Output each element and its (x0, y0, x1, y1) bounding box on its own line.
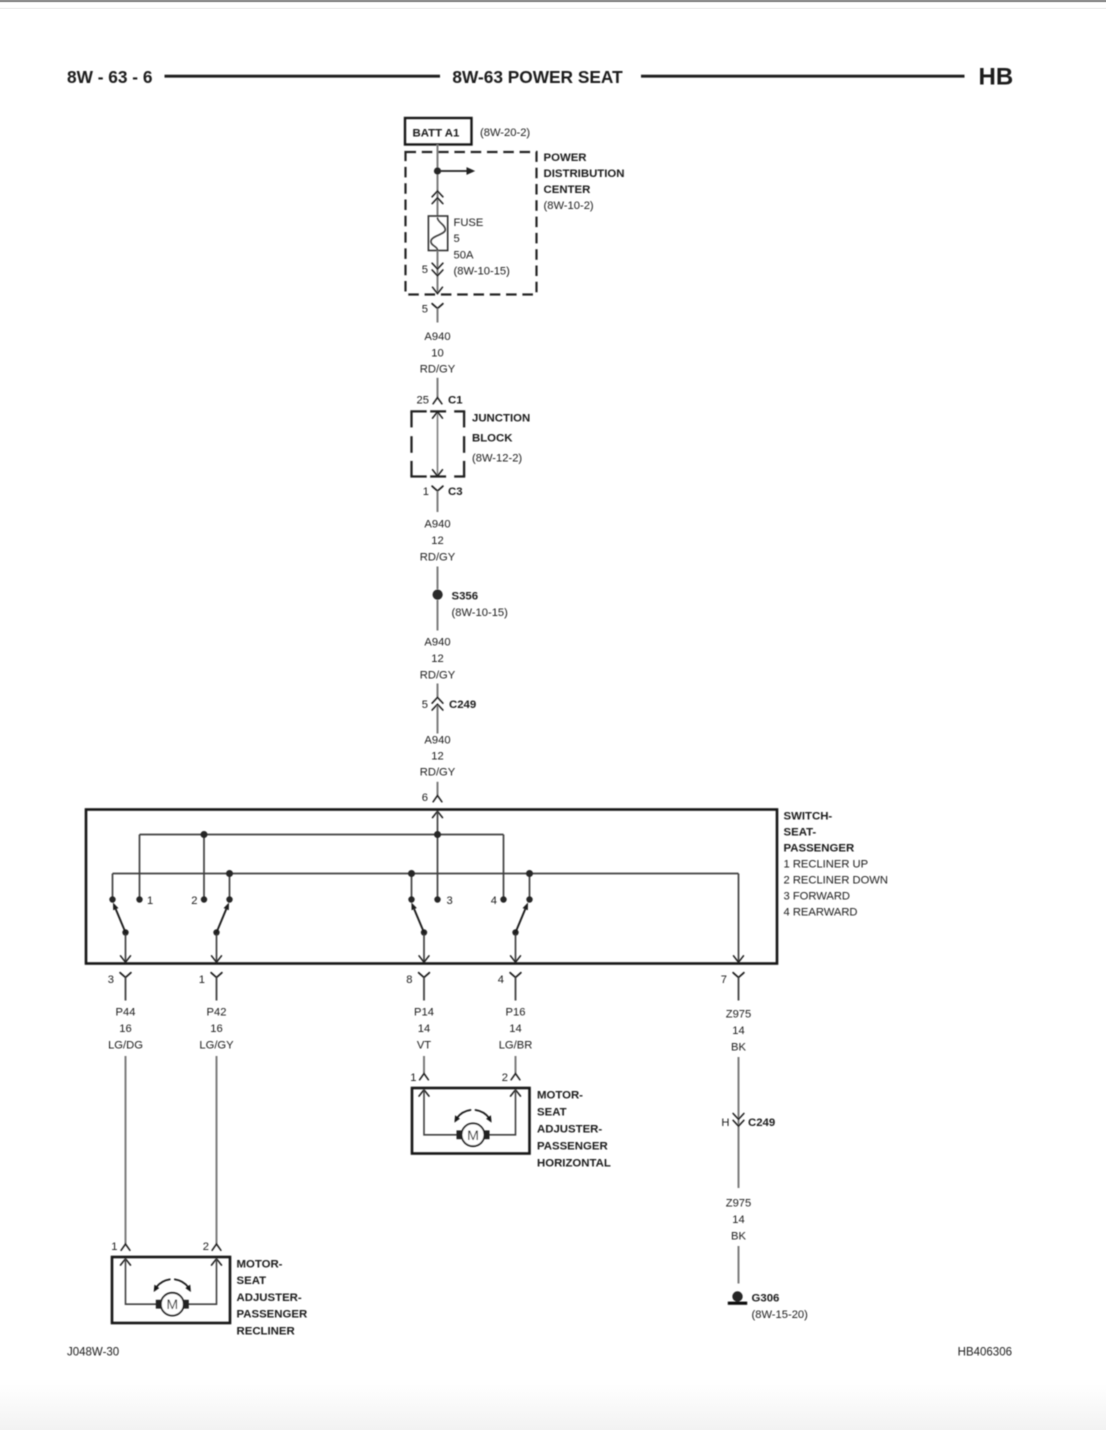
svg-text:A940: A940 (424, 519, 450, 531)
svg-text:FUSE: FUSE (454, 217, 484, 229)
svg-text:RD/GY: RD/GY (420, 767, 456, 779)
svg-text:RD/GY: RD/GY (420, 364, 456, 376)
svg-text:25: 25 (417, 394, 429, 406)
svg-text:2 RECLINER DOWN: 2 RECLINER DOWN (784, 875, 888, 887)
svg-text:14: 14 (732, 1025, 744, 1037)
svg-text:RD/GY: RD/GY (420, 552, 456, 564)
svg-text:16: 16 (119, 1023, 131, 1035)
svg-text:5: 5 (422, 699, 428, 711)
svg-text:H: H (721, 1117, 729, 1129)
svg-text:8: 8 (406, 974, 412, 986)
svg-text:LG/DG: LG/DG (108, 1039, 143, 1051)
svg-text:BK: BK (731, 1041, 746, 1053)
svg-text:MOTOR-: MOTOR- (537, 1090, 583, 1102)
svg-text:JUNCTION: JUNCTION (472, 413, 530, 425)
svg-text:12: 12 (431, 653, 443, 665)
svg-text:6: 6 (422, 792, 428, 804)
svg-text:4 REARWARD: 4 REARWARD (784, 907, 858, 919)
svg-text:12: 12 (431, 751, 443, 763)
svg-text:5: 5 (454, 233, 460, 245)
svg-text:MOTOR-: MOTOR- (237, 1259, 283, 1271)
svg-text:5: 5 (422, 264, 428, 276)
svg-text:LG/BR: LG/BR (499, 1039, 533, 1051)
svg-text:(8W-12-2): (8W-12-2) (472, 453, 522, 465)
svg-text:50A: 50A (454, 249, 474, 261)
svg-text:HB: HB (979, 64, 1014, 91)
svg-text:ADJUSTER-: ADJUSTER- (537, 1124, 602, 1136)
svg-text:P16: P16 (506, 1007, 526, 1019)
svg-text:C3: C3 (448, 486, 463, 498)
svg-text:S356: S356 (452, 590, 479, 602)
svg-text:ADJUSTER-: ADJUSTER- (237, 1292, 302, 1304)
svg-text:1: 1 (199, 974, 205, 986)
svg-text:A940: A940 (424, 735, 450, 747)
svg-text:HORIZONTAL: HORIZONTAL (537, 1158, 611, 1170)
svg-text:16: 16 (210, 1023, 222, 1035)
svg-text:5: 5 (422, 304, 428, 316)
svg-text:8W - 63 - 6: 8W - 63 - 6 (67, 67, 152, 87)
svg-text:BATT A1: BATT A1 (413, 127, 460, 139)
svg-text:2: 2 (502, 1072, 508, 1084)
svg-text:Z975: Z975 (726, 1198, 752, 1210)
svg-text:7: 7 (721, 974, 727, 986)
svg-text:(8W-10-15): (8W-10-15) (454, 266, 511, 278)
svg-text:POWER: POWER (544, 152, 587, 164)
svg-text:VT: VT (417, 1039, 431, 1051)
svg-text:1 RECLINER UP: 1 RECLINER UP (784, 859, 869, 871)
svg-text:(8W-10-2): (8W-10-2) (544, 200, 594, 212)
svg-text:14: 14 (732, 1214, 744, 1226)
svg-text:SWITCH-: SWITCH- (784, 811, 833, 823)
svg-text:PASSENGER: PASSENGER (537, 1141, 608, 1153)
svg-text:CENTER: CENTER (544, 184, 591, 196)
svg-text:3: 3 (447, 895, 453, 907)
svg-text:14: 14 (509, 1023, 521, 1035)
svg-text:3 FORWARD: 3 FORWARD (784, 891, 851, 903)
svg-text:PASSENGER: PASSENGER (784, 843, 855, 855)
svg-text:8W-63 POWER SEAT: 8W-63 POWER SEAT (452, 67, 623, 87)
svg-text:4: 4 (491, 895, 497, 907)
svg-text:G306: G306 (752, 1293, 780, 1305)
svg-text:C1: C1 (448, 394, 463, 406)
svg-text:(8W-20-2): (8W-20-2) (480, 127, 530, 139)
svg-text:J048W-30: J048W-30 (67, 1347, 119, 1359)
svg-text:C249: C249 (449, 699, 476, 711)
svg-text:A940: A940 (424, 331, 450, 343)
svg-text:BLOCK: BLOCK (472, 433, 513, 445)
svg-text:1: 1 (147, 895, 153, 907)
svg-text:M: M (166, 1297, 178, 1313)
svg-text:1: 1 (111, 1241, 117, 1253)
svg-text:M: M (467, 1128, 479, 1144)
svg-text:RD/GY: RD/GY (420, 669, 456, 681)
svg-text:SEAT: SEAT (537, 1107, 567, 1119)
svg-text:PASSENGER: PASSENGER (237, 1309, 308, 1321)
svg-text:(8W-10-15): (8W-10-15) (452, 607, 509, 619)
svg-text:12: 12 (431, 535, 443, 547)
svg-text:A940: A940 (424, 637, 450, 649)
svg-text:4: 4 (498, 974, 504, 986)
svg-text:DISTRIBUTION: DISTRIBUTION (544, 168, 625, 180)
svg-text:(8W-15-20): (8W-15-20) (752, 1309, 809, 1321)
svg-text:1: 1 (410, 1072, 416, 1084)
svg-text:P14: P14 (414, 1007, 434, 1019)
svg-text:14: 14 (418, 1023, 430, 1035)
svg-text:P44: P44 (116, 1007, 136, 1019)
svg-text:C249: C249 (748, 1117, 775, 1129)
svg-text:P42: P42 (207, 1007, 227, 1019)
svg-text:BK: BK (731, 1230, 746, 1242)
svg-text:HB406306: HB406306 (958, 1347, 1012, 1359)
svg-text:1: 1 (423, 486, 429, 498)
svg-text:2: 2 (191, 895, 197, 907)
svg-text:3: 3 (108, 974, 114, 986)
svg-text:SEAT: SEAT (237, 1275, 267, 1287)
svg-text:LG/GY: LG/GY (199, 1039, 234, 1051)
svg-text:10: 10 (431, 347, 443, 359)
svg-text:SEAT-: SEAT- (784, 827, 817, 839)
svg-text:2: 2 (203, 1241, 209, 1253)
svg-text:RECLINER: RECLINER (237, 1325, 295, 1337)
svg-text:Z975: Z975 (726, 1009, 752, 1021)
